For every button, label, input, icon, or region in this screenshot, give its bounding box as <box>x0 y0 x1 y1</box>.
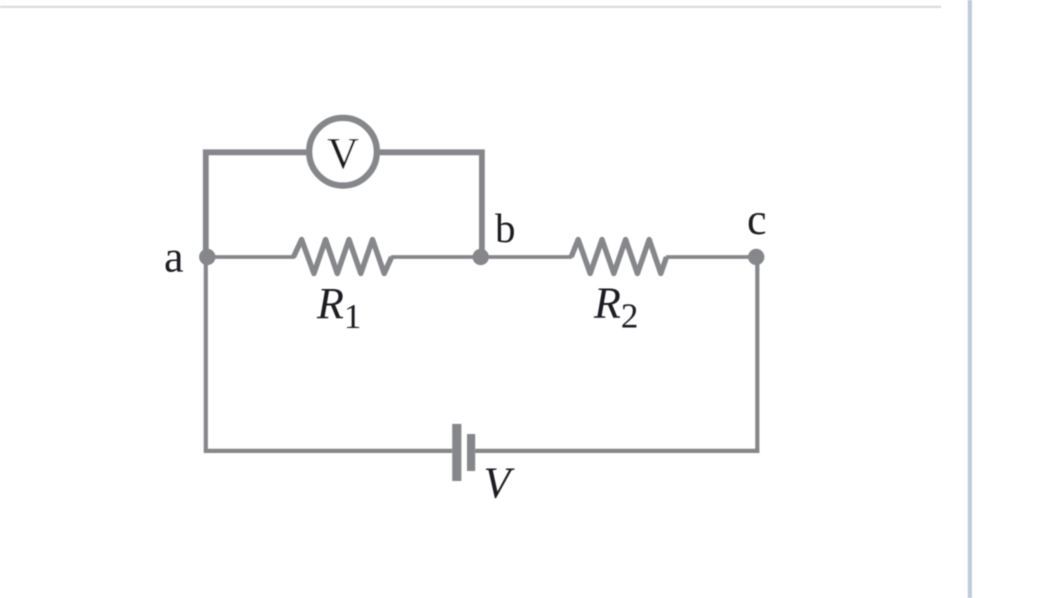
svg-text:R1: R1 <box>316 279 361 336</box>
wire: resistor R2 to node c <box>666 255 757 259</box>
wire: voltmeter branch from node a up, across, down to node b <box>206 152 482 257</box>
node c junction dot <box>748 249 764 265</box>
node b junction dot <box>473 249 489 265</box>
resistor R2 zigzag <box>571 240 666 274</box>
node a junction dot <box>199 249 215 265</box>
svg-text:b: b <box>495 205 516 251</box>
wire: node a to resistor R1 <box>205 255 295 259</box>
wire: battery negative plate along bottom and up to node c <box>475 254 757 451</box>
wire: node a down and along bottom to battery positive plate <box>206 254 452 451</box>
svg-text:a: a <box>164 233 184 282</box>
svg-text:R2: R2 <box>593 279 638 336</box>
svg-text:V: V <box>484 459 516 508</box>
resistor R1 zigzag <box>294 240 392 274</box>
wire: node b to resistor R2 <box>481 255 572 259</box>
voltmeter U1 (circle with V) <box>309 118 377 186</box>
svg-text:c: c <box>747 195 767 244</box>
wire: resistor R1 to node b <box>391 255 482 259</box>
svg-text:V: V <box>327 129 359 178</box>
battery V (two plates) <box>452 424 475 481</box>
